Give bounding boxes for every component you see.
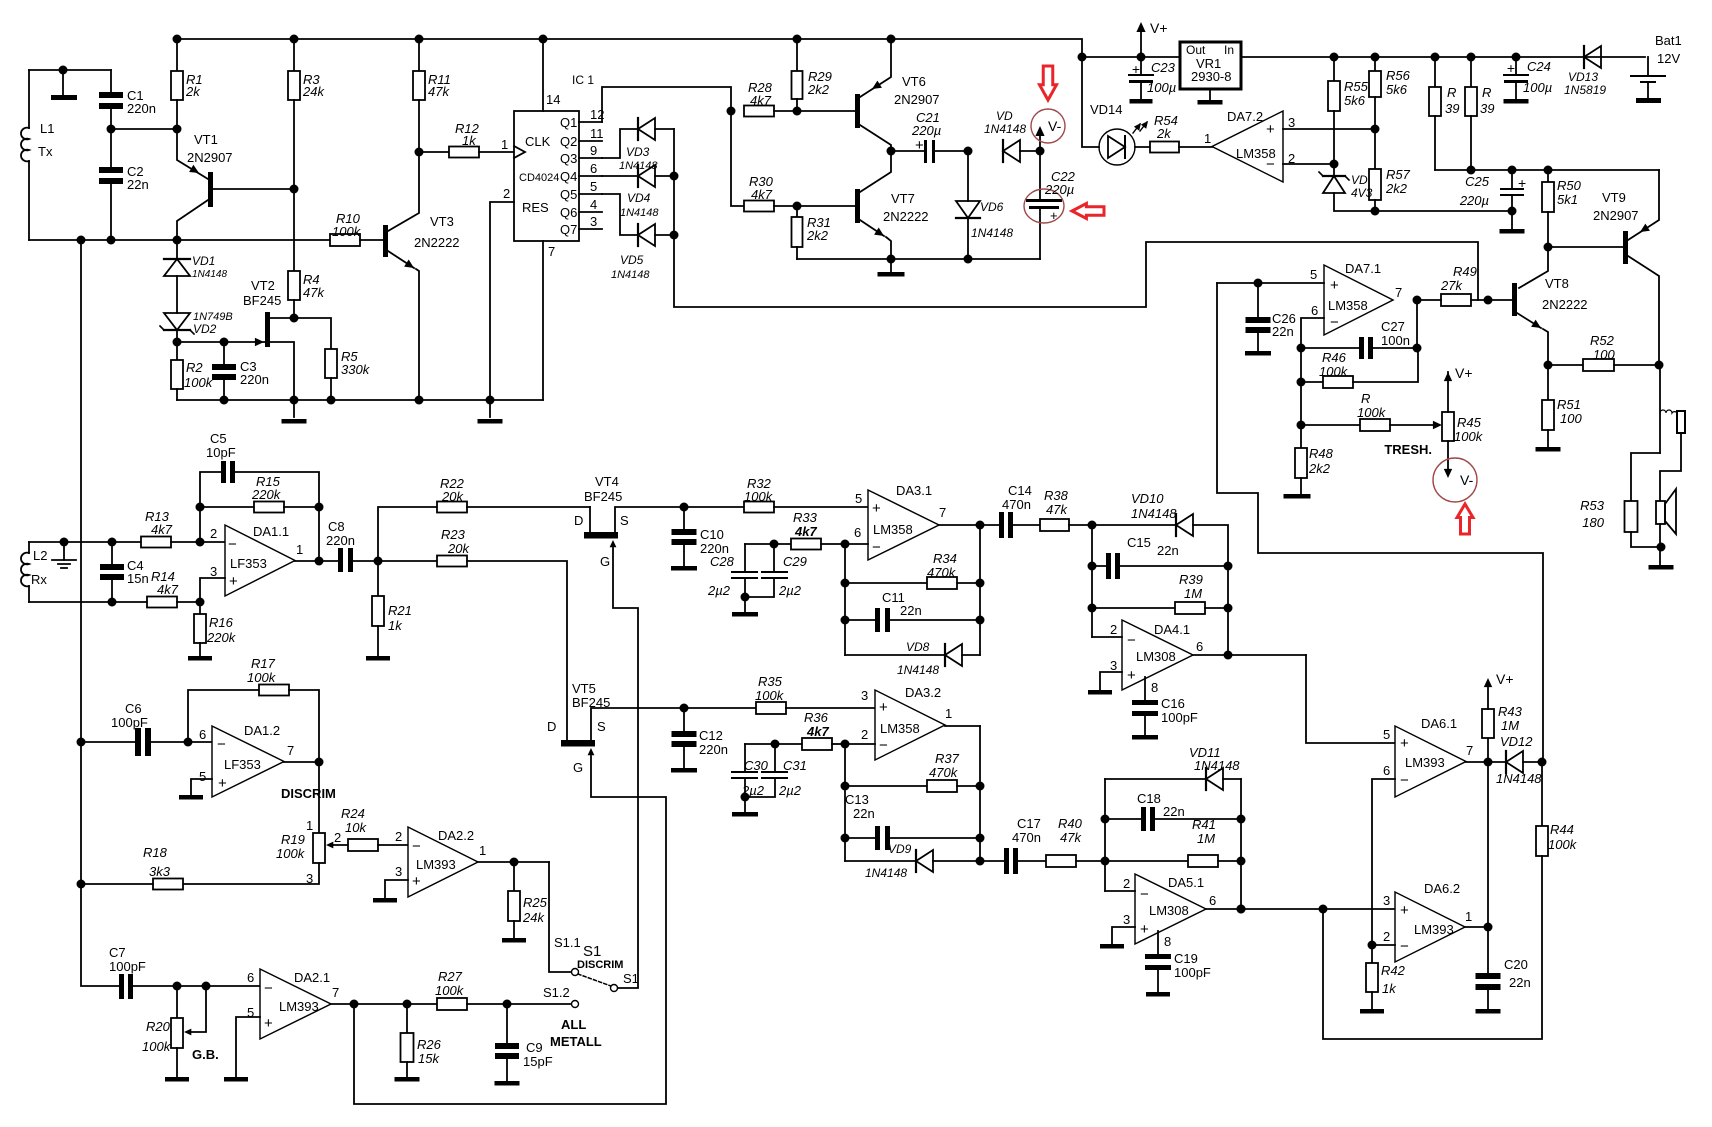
svg-text:C25: C25 — [1465, 174, 1490, 189]
svg-text:G: G — [573, 760, 583, 775]
svg-text:Q7: Q7 — [560, 222, 577, 237]
svg-text:R: R — [1482, 85, 1491, 100]
svg-text:7: 7 — [1466, 743, 1473, 758]
svg-text:100k: 100k — [1357, 405, 1387, 420]
svg-text:−: − — [879, 737, 888, 754]
svg-text:R39: R39 — [1179, 572, 1203, 587]
svg-text:DA1.2: DA1.2 — [244, 723, 280, 738]
svg-text:2k2: 2k2 — [1385, 181, 1408, 196]
svg-text:5: 5 — [1383, 727, 1390, 742]
svg-text:−: − — [1127, 632, 1136, 649]
svg-text:R: R — [1447, 85, 1456, 100]
svg-text:R57: R57 — [1386, 167, 1411, 182]
svg-text:1N4148: 1N4148 — [1496, 771, 1542, 786]
svg-text:100pF: 100pF — [109, 959, 146, 974]
svg-text:−: − — [412, 838, 421, 855]
svg-text:100k: 100k — [247, 670, 277, 685]
svg-text:−: − — [1400, 938, 1409, 955]
svg-text:VD9: VD9 — [888, 842, 912, 856]
svg-text:2k2: 2k2 — [1308, 461, 1331, 476]
svg-text:R49: R49 — [1453, 264, 1477, 279]
svg-text:6: 6 — [1209, 893, 1216, 908]
svg-text:6: 6 — [854, 525, 861, 540]
svg-text:2k: 2k — [1156, 126, 1172, 141]
svg-text:C18: C18 — [1137, 791, 1161, 806]
svg-text:8: 8 — [1164, 934, 1171, 949]
svg-text:+: + — [218, 775, 227, 792]
svg-text:220µ: 220µ — [1459, 193, 1489, 208]
svg-text:VT3: VT3 — [430, 214, 454, 229]
svg-text:5: 5 — [1310, 267, 1317, 282]
svg-text:22n: 22n — [900, 603, 922, 618]
svg-text:C14: C14 — [1008, 483, 1032, 498]
svg-text:+: + — [1400, 902, 1409, 919]
svg-text:220n: 220n — [326, 533, 355, 548]
svg-text:1N5819: 1N5819 — [1564, 83, 1606, 97]
svg-text:2: 2 — [1123, 876, 1130, 891]
svg-text:1: 1 — [1465, 909, 1472, 924]
svg-text:100k: 100k — [1319, 364, 1349, 379]
svg-text:S: S — [597, 719, 606, 734]
svg-text:47k: 47k — [428, 84, 450, 99]
svg-text:−: − — [264, 980, 273, 997]
svg-text:LM358: LM358 — [1328, 298, 1368, 313]
svg-text:IC 1: IC 1 — [572, 73, 594, 87]
svg-text:Q3: Q3 — [560, 151, 577, 166]
svg-text:22n: 22n — [1272, 324, 1294, 339]
svg-text:LF353: LF353 — [224, 757, 261, 772]
svg-text:5k6: 5k6 — [1386, 82, 1408, 97]
svg-text:2: 2 — [1383, 929, 1390, 944]
svg-text:−: − — [228, 536, 237, 553]
svg-text:1N4148: 1N4148 — [1194, 758, 1240, 773]
svg-text:5: 5 — [590, 179, 597, 194]
svg-text:VT5: VT5 — [572, 681, 596, 696]
svg-text:LM358: LM358 — [873, 522, 913, 537]
svg-text:C24: C24 — [1527, 59, 1551, 74]
svg-text:C27: C27 — [1381, 319, 1405, 334]
svg-text:D: D — [574, 513, 583, 528]
svg-text:3: 3 — [1288, 115, 1295, 130]
svg-text:4k7: 4k7 — [157, 582, 179, 597]
svg-text:C23: C23 — [1151, 60, 1176, 75]
svg-text:5: 5 — [199, 769, 206, 784]
svg-text:180: 180 — [1582, 515, 1604, 530]
svg-text:2N2907: 2N2907 — [894, 92, 940, 107]
svg-text:7: 7 — [1395, 285, 1402, 300]
svg-text:C7: C7 — [109, 945, 126, 960]
svg-text:8: 8 — [1151, 680, 1158, 695]
svg-text:R45: R45 — [1457, 415, 1482, 430]
svg-text:1: 1 — [501, 137, 508, 152]
svg-text:+: + — [1127, 667, 1136, 684]
svg-text:C20: C20 — [1504, 957, 1528, 972]
svg-text:6: 6 — [1383, 763, 1390, 778]
svg-text:1N4148: 1N4148 — [984, 122, 1026, 136]
svg-text:CD4024: CD4024 — [519, 172, 559, 184]
svg-text:VT7: VT7 — [891, 191, 915, 206]
svg-text:1N4148: 1N4148 — [1131, 506, 1177, 521]
svg-text:L1: L1 — [40, 121, 54, 136]
svg-text:LM393: LM393 — [1414, 922, 1454, 937]
svg-text:100k: 100k — [744, 489, 774, 504]
svg-text:22n: 22n — [1509, 975, 1531, 990]
svg-text:+: + — [1140, 921, 1149, 938]
svg-text:R20: R20 — [146, 1019, 171, 1034]
svg-text:220µ: 220µ — [911, 123, 941, 138]
svg-text:S1: S1 — [583, 943, 601, 960]
svg-text:R21: R21 — [388, 603, 412, 618]
svg-text:2N2222: 2N2222 — [414, 235, 460, 250]
svg-text:4k7: 4k7 — [751, 187, 773, 202]
svg-text:+: + — [1132, 61, 1140, 77]
svg-text:100n: 100n — [1381, 333, 1410, 348]
svg-text:2: 2 — [1288, 151, 1295, 166]
svg-text:1M: 1M — [1184, 586, 1202, 601]
svg-text:22n: 22n — [1163, 804, 1185, 819]
svg-text:DA3.1: DA3.1 — [896, 483, 932, 498]
svg-text:+: + — [1330, 277, 1339, 294]
svg-text:VT9: VT9 — [1602, 190, 1626, 205]
svg-text:R33: R33 — [793, 510, 818, 525]
svg-text:6: 6 — [1196, 639, 1203, 654]
svg-text:2: 2 — [395, 829, 402, 844]
svg-text:R41: R41 — [1192, 817, 1216, 832]
svg-text:LM393: LM393 — [1405, 755, 1445, 770]
svg-text:R44: R44 — [1550, 822, 1574, 837]
svg-text:BF245: BF245 — [243, 293, 281, 308]
svg-text:R24: R24 — [341, 806, 365, 821]
svg-text:100k: 100k — [755, 688, 785, 703]
svg-text:3: 3 — [1383, 893, 1390, 908]
svg-text:100µ: 100µ — [1523, 80, 1552, 95]
svg-text:2N2222: 2N2222 — [1542, 297, 1588, 312]
svg-text:DA3.2: DA3.2 — [905, 685, 941, 700]
svg-text:C31: C31 — [783, 758, 807, 773]
svg-text:220n: 220n — [240, 372, 269, 387]
svg-text:BF245: BF245 — [572, 695, 610, 710]
svg-text:C19: C19 — [1174, 951, 1198, 966]
svg-text:+: + — [1050, 208, 1058, 223]
svg-text:CLK: CLK — [525, 134, 551, 149]
svg-text:S: S — [620, 513, 629, 528]
svg-text:3k3: 3k3 — [149, 864, 171, 879]
svg-text:15n: 15n — [127, 571, 149, 586]
svg-text:VD: VD — [996, 109, 1013, 123]
svg-text:2µ2: 2µ2 — [778, 583, 802, 598]
svg-text:VD2: VD2 — [193, 322, 217, 336]
svg-text:10k: 10k — [345, 820, 367, 835]
svg-text:9: 9 — [590, 143, 597, 158]
svg-text:2k2: 2k2 — [807, 82, 830, 97]
svg-text:1N4148: 1N4148 — [897, 663, 939, 677]
svg-text:−: − — [872, 539, 881, 556]
svg-text:4k7: 4k7 — [750, 93, 772, 108]
svg-text:6: 6 — [590, 161, 597, 176]
svg-text:R43: R43 — [1498, 704, 1523, 719]
svg-text:R16: R16 — [209, 615, 234, 630]
svg-text:2N2222: 2N2222 — [883, 209, 929, 224]
svg-text:−: − — [1400, 772, 1409, 789]
svg-text:C5: C5 — [210, 431, 227, 446]
svg-text:L2: L2 — [33, 548, 47, 563]
svg-text:22n: 22n — [1157, 543, 1179, 558]
svg-text:3: 3 — [861, 688, 868, 703]
svg-text:2: 2 — [210, 526, 217, 541]
svg-text:39: 39 — [1480, 101, 1494, 116]
svg-text:20k: 20k — [441, 489, 464, 504]
svg-text:R51: R51 — [1557, 397, 1581, 412]
svg-text:47k: 47k — [1046, 502, 1068, 517]
svg-text:METALL: METALL — [550, 1034, 602, 1049]
svg-text:+: + — [1266, 121, 1275, 138]
svg-text:6: 6 — [1311, 303, 1318, 318]
svg-text:14: 14 — [546, 92, 560, 107]
svg-text:R2: R2 — [186, 360, 203, 375]
svg-text:VT2: VT2 — [251, 278, 275, 293]
svg-text:DA1.1: DA1.1 — [253, 524, 289, 539]
svg-text:12: 12 — [590, 107, 604, 122]
svg-text:Bat1: Bat1 — [1655, 33, 1682, 48]
svg-text:2k: 2k — [185, 84, 201, 99]
svg-text:R27: R27 — [438, 969, 463, 984]
svg-text:100k: 100k — [332, 224, 362, 239]
svg-text:100pF: 100pF — [1161, 710, 1198, 725]
svg-text:470k: 470k — [929, 765, 959, 780]
svg-text:2: 2 — [861, 727, 868, 742]
svg-text:4k7: 4k7 — [806, 724, 829, 739]
svg-text:220n: 220n — [127, 101, 156, 116]
svg-text:VD4: VD4 — [627, 191, 651, 205]
svg-text:+: + — [412, 873, 421, 890]
svg-text:100pF: 100pF — [111, 715, 148, 730]
svg-text:100k: 100k — [1454, 429, 1484, 444]
svg-text:100µ: 100µ — [1147, 80, 1176, 95]
svg-text:BF245: BF245 — [584, 489, 622, 504]
svg-text:Q2: Q2 — [560, 134, 577, 149]
svg-text:R38: R38 — [1044, 488, 1069, 503]
svg-text:−: − — [1140, 886, 1149, 903]
svg-text:V+: V+ — [1496, 671, 1514, 687]
svg-text:4k7: 4k7 — [151, 522, 173, 537]
svg-text:VT1: VT1 — [194, 132, 218, 147]
svg-text:7: 7 — [548, 244, 555, 259]
svg-text:1N4148: 1N4148 — [865, 866, 907, 880]
svg-text:C28: C28 — [710, 554, 735, 569]
svg-text:S1.1: S1.1 — [554, 935, 581, 950]
svg-text:DA6.2: DA6.2 — [1424, 881, 1460, 896]
svg-text:LM393: LM393 — [279, 999, 319, 1014]
svg-text:R55: R55 — [1344, 79, 1369, 94]
svg-text:100k: 100k — [184, 375, 214, 390]
svg-text:10pF: 10pF — [206, 445, 236, 460]
svg-text:3: 3 — [1123, 912, 1130, 927]
svg-text:R35: R35 — [758, 674, 783, 689]
svg-text:15k: 15k — [418, 1051, 440, 1066]
svg-text:VT6: VT6 — [902, 74, 926, 89]
svg-text:220n: 220n — [699, 742, 728, 757]
svg-text:5: 5 — [247, 1005, 254, 1020]
svg-text:470n: 470n — [1012, 830, 1041, 845]
svg-text:VD1: VD1 — [192, 254, 215, 268]
svg-text:R56: R56 — [1386, 68, 1411, 83]
svg-text:VT8: VT8 — [1545, 276, 1569, 291]
svg-text:VD8: VD8 — [906, 640, 930, 654]
svg-text:7: 7 — [332, 985, 339, 1000]
svg-text:R25: R25 — [523, 895, 548, 910]
svg-text:1k: 1k — [1382, 981, 1397, 996]
svg-text:1M: 1M — [1197, 831, 1215, 846]
svg-text:100k: 100k — [142, 1039, 172, 1054]
svg-text:2930-8: 2930-8 — [1191, 69, 1231, 84]
svg-text:R18: R18 — [143, 845, 168, 860]
svg-text:C30: C30 — [744, 758, 769, 773]
svg-text:G.B.: G.B. — [192, 1047, 219, 1062]
svg-text:LM393: LM393 — [416, 857, 456, 872]
svg-text:G: G — [600, 554, 610, 569]
svg-text:1M: 1M — [1501, 718, 1519, 733]
svg-text:39: 39 — [1445, 101, 1459, 116]
svg-text:100k: 100k — [435, 983, 465, 998]
svg-text:1: 1 — [296, 542, 303, 557]
svg-text:1N4148: 1N4148 — [620, 207, 659, 219]
svg-text:VD14: VD14 — [1090, 102, 1123, 117]
svg-text:+: + — [264, 1015, 273, 1032]
svg-text:DA7.1: DA7.1 — [1345, 261, 1381, 276]
svg-text:LM358: LM358 — [880, 721, 920, 736]
svg-text:1: 1 — [306, 818, 313, 833]
svg-text:+: + — [1400, 735, 1409, 752]
svg-text:LF353: LF353 — [230, 556, 267, 571]
svg-text:47k: 47k — [1060, 830, 1082, 845]
svg-text:DISCRIM: DISCRIM — [281, 786, 336, 801]
svg-text:VD5: VD5 — [620, 253, 644, 267]
svg-text:330k: 330k — [341, 362, 371, 377]
svg-text:6: 6 — [199, 727, 206, 742]
svg-text:24k: 24k — [522, 910, 545, 925]
svg-text:2µ2: 2µ2 — [778, 783, 802, 798]
svg-text:20k: 20k — [447, 541, 470, 556]
svg-text:S1.2: S1.2 — [543, 985, 570, 1000]
svg-text:15pF: 15pF — [523, 1054, 553, 1069]
svg-text:DA7.2: DA7.2 — [1227, 109, 1263, 124]
svg-text:R52: R52 — [1590, 333, 1615, 348]
svg-text:C13: C13 — [845, 792, 869, 807]
svg-text:3: 3 — [590, 214, 597, 229]
svg-text:Q1: Q1 — [560, 115, 577, 130]
svg-text:100pF: 100pF — [1174, 965, 1211, 980]
svg-text:RES: RES — [522, 200, 549, 215]
svg-text:3: 3 — [306, 871, 313, 886]
svg-text:V+: V+ — [1150, 20, 1168, 36]
svg-text:470n: 470n — [1002, 497, 1031, 512]
svg-text:100k: 100k — [1548, 837, 1578, 852]
svg-text:VD3: VD3 — [626, 145, 650, 159]
svg-text:V+: V+ — [1455, 365, 1473, 381]
svg-text:C9: C9 — [526, 1040, 543, 1055]
svg-text:R26: R26 — [417, 1037, 442, 1052]
svg-text:LM308: LM308 — [1136, 649, 1176, 664]
svg-text:C12: C12 — [699, 728, 723, 743]
svg-text:6: 6 — [247, 970, 254, 985]
svg-text:5k6: 5k6 — [1344, 93, 1366, 108]
svg-text:7: 7 — [939, 505, 946, 520]
svg-text:R23: R23 — [441, 527, 466, 542]
svg-text:1: 1 — [1204, 131, 1211, 146]
svg-text:VD12: VD12 — [1500, 734, 1533, 749]
svg-text:Q6: Q6 — [560, 205, 577, 220]
svg-text:TRESH.: TRESH. — [1384, 442, 1432, 457]
svg-text:5: 5 — [855, 491, 862, 506]
svg-text:+: + — [229, 573, 238, 590]
svg-text:3: 3 — [210, 564, 217, 579]
svg-text:1N4148: 1N4148 — [971, 226, 1013, 240]
svg-text:1k: 1k — [388, 618, 403, 633]
svg-text:DA4.1: DA4.1 — [1154, 622, 1190, 637]
svg-text:R46: R46 — [1322, 350, 1347, 365]
svg-text:Q4: Q4 — [560, 169, 577, 184]
svg-text:1k: 1k — [462, 133, 477, 148]
svg-text:220k: 220k — [206, 630, 237, 645]
svg-text:2N2907: 2N2907 — [187, 150, 233, 165]
svg-text:V-: V- — [1460, 472, 1474, 488]
svg-text:2µ2: 2µ2 — [741, 783, 765, 798]
svg-text:S1: S1 — [623, 971, 639, 986]
svg-text:VD6: VD6 — [980, 200, 1004, 214]
svg-text:R40: R40 — [1058, 816, 1083, 831]
svg-text:C29: C29 — [783, 554, 807, 569]
svg-text:DA5.1: DA5.1 — [1168, 875, 1204, 890]
svg-text:R36: R36 — [804, 710, 829, 725]
svg-text:LM308: LM308 — [1149, 903, 1189, 918]
svg-text:VT4: VT4 — [595, 474, 619, 489]
svg-text:+: + — [879, 699, 888, 716]
svg-text:100: 100 — [1593, 347, 1615, 362]
svg-text:DA2.2: DA2.2 — [438, 828, 474, 843]
svg-text:+: + — [1507, 60, 1515, 76]
svg-text:VD: VD — [1351, 173, 1368, 187]
svg-text:R37: R37 — [935, 751, 960, 766]
svg-text:4k7: 4k7 — [794, 524, 817, 539]
svg-text:2: 2 — [503, 186, 510, 201]
svg-text:C15: C15 — [1127, 535, 1151, 550]
svg-text:11: 11 — [590, 126, 604, 141]
svg-text:2µ2: 2µ2 — [707, 583, 731, 598]
svg-text:C16: C16 — [1161, 696, 1185, 711]
svg-text:Rx: Rx — [31, 572, 47, 587]
svg-text:Tx: Tx — [38, 144, 53, 159]
svg-text:2k2: 2k2 — [806, 228, 829, 243]
svg-text:R19: R19 — [281, 832, 305, 847]
svg-text:R53: R53 — [1580, 498, 1605, 513]
svg-text:3: 3 — [1110, 658, 1117, 673]
svg-text:Q5: Q5 — [560, 187, 577, 202]
svg-text:ALL: ALL — [561, 1017, 586, 1032]
svg-text:4V3: 4V3 — [1351, 186, 1373, 200]
svg-text:12V: 12V — [1657, 51, 1680, 66]
svg-text:−: − — [217, 736, 226, 753]
svg-text:24k: 24k — [302, 84, 325, 99]
svg-text:2: 2 — [1110, 622, 1117, 637]
svg-text:1: 1 — [479, 843, 486, 858]
svg-text:22n: 22n — [853, 806, 875, 821]
svg-text:3: 3 — [395, 864, 402, 879]
svg-text:5k1: 5k1 — [1557, 192, 1578, 207]
svg-text:470k: 470k — [927, 565, 957, 580]
svg-text:7: 7 — [287, 743, 294, 758]
svg-text:DA6.1: DA6.1 — [1421, 716, 1457, 731]
svg-text:100: 100 — [1560, 411, 1582, 426]
